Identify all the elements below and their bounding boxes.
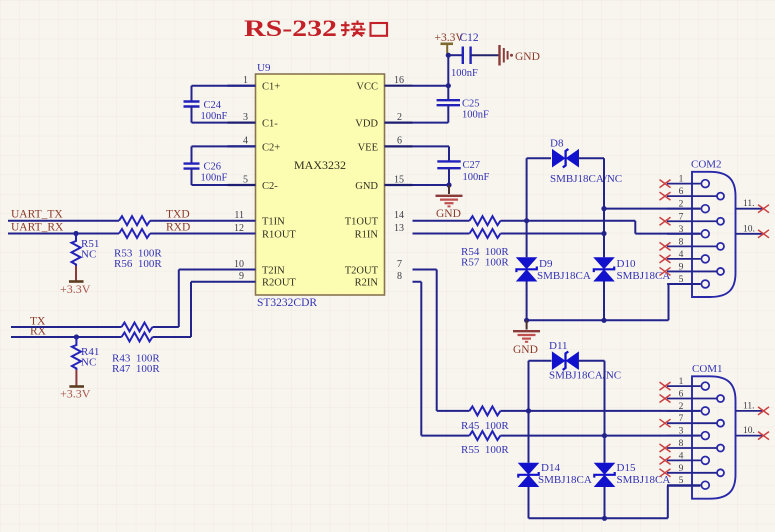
- D8 center bar: [563, 149, 569, 167]
- IC U9 MAX3232: [228, 62, 413, 309]
- COM2 right circles pins 6-9: [717, 193, 724, 275]
- COM2 pin 11 stub: [736, 208, 764, 210]
- svg-text:RXD: RXD: [166, 222, 190, 234]
- svg-text:D11: D11: [549, 340, 568, 352]
- junction node D9 T1OUT: [524, 218, 529, 223]
- svg-text:R57 100R: R57 100R: [461, 257, 509, 269]
- ground symbol stub rail: [526, 320, 528, 329]
- U9 body: [256, 74, 385, 295]
- svg-text:D15: D15: [617, 462, 636, 474]
- COM1 pin 10 stub: [736, 435, 764, 437]
- svg-text:6: 6: [679, 390, 684, 400]
- svg-text:8: 8: [679, 439, 684, 449]
- svg-text:1: 1: [679, 377, 684, 387]
- wire +3.3V down to C25: [447, 55, 449, 100]
- wire pin4 to C26: [192, 146, 256, 163]
- svg-text:SMBJ18CA: SMBJ18CA: [538, 474, 592, 486]
- svg-text:9: 9: [679, 262, 684, 272]
- svg-text:C2+: C2+: [262, 142, 280, 153]
- COM1 connector: [660, 363, 770, 499]
- wire R45 to COM1 pin2: [500, 410, 700, 412]
- svg-text:UART_RX: UART_RX: [11, 222, 64, 234]
- diode D8 TVS bowtie: [552, 149, 579, 168]
- svg-text:COM2: COM2: [691, 159, 722, 171]
- COM1 pin 9 stub: [667, 472, 717, 474]
- svg-text:6: 6: [397, 136, 402, 147]
- svg-text:D9: D9: [539, 258, 553, 270]
- svg-text:10: 10: [234, 259, 244, 270]
- wire +3.3V to C12: [448, 54, 463, 56]
- svg-text:5: 5: [679, 476, 684, 486]
- junction node D10 top: [601, 206, 606, 211]
- COM1 pin 9 noerc X: [660, 469, 671, 477]
- capacitor C27 plates: [437, 161, 460, 168]
- COM1 left circles pins 1-5: [701, 382, 709, 489]
- junction node C12: [446, 53, 451, 58]
- wire vertical D8 to D9: [526, 158, 528, 257]
- svg-text:7: 7: [397, 259, 402, 270]
- wire R1IN pin13: [413, 233, 470, 235]
- COM2 pin 7 noerc X: [660, 217, 671, 225]
- svg-text:100nF: 100nF: [201, 111, 228, 122]
- svg-text:C25: C25: [462, 99, 480, 110]
- wire D10 to gnd rail: [603, 282, 605, 321]
- svg-text:SMBJ18CA: SMBJ18CA: [537, 270, 591, 282]
- wire VEE pin6 to C27: [413, 146, 450, 161]
- wire R53 to T1IN pin11: [150, 220, 256, 222]
- capacitor C24: [184, 86, 256, 123]
- power +3.3V stub top: [447, 44, 448, 55]
- wire VCC pin16: [413, 85, 449, 87]
- power GND dot: [510, 54, 513, 57]
- svg-text:15: 15: [394, 174, 404, 185]
- COM1 shell: [692, 376, 736, 498]
- COM2 pin 11 noerc X: [758, 205, 769, 213]
- wire C26 to pin5: [192, 169, 228, 185]
- wire RX to R47: [11, 336, 122, 338]
- wire UART_TX to T1IN: [8, 220, 119, 222]
- COM1 pin 5 stub: [667, 484, 701, 486]
- svg-text:6: 6: [679, 187, 684, 197]
- COM2 pin 4 stub: [667, 258, 701, 260]
- svg-text:NC: NC: [81, 249, 96, 261]
- svg-text:3: 3: [679, 427, 684, 437]
- svg-text:7: 7: [679, 414, 684, 424]
- COM2 pin 10 stub: [736, 233, 764, 235]
- wire D8 right lead: [578, 157, 604, 159]
- svg-text:R1OUT: R1OUT: [262, 230, 296, 241]
- wire C12 to GND: [471, 54, 500, 56]
- junction node rail D9: [524, 318, 529, 323]
- svg-text:100nF: 100nF: [463, 172, 490, 183]
- ground symbol stub: [448, 185, 450, 194]
- junction node rail D10: [601, 318, 606, 323]
- wire D11 left lead: [529, 360, 552, 362]
- COM2 pin 1 noerc X: [660, 180, 671, 188]
- COM1 pin 8 noerc X: [660, 444, 671, 452]
- svg-text:D8: D8: [550, 138, 564, 150]
- svg-text:D14: D14: [541, 462, 560, 474]
- svg-text:R2OUT: R2OUT: [262, 278, 296, 289]
- svg-text:SMBJ18CA: SMBJ18CA: [617, 474, 671, 486]
- wire GND pin15: [413, 184, 450, 186]
- junction node D14 line1: [526, 408, 531, 413]
- diode D10 TVS bowtie vertical: [593, 257, 615, 281]
- resistor R41 vertical: [72, 337, 81, 370]
- capacitor C26: [184, 146, 256, 185]
- resistor R53: [119, 216, 150, 225]
- COM1 pin 7 stub: [667, 422, 717, 424]
- pin names left: [262, 82, 296, 289]
- svg-text:12: 12: [234, 223, 244, 234]
- svg-text:VCC: VCC: [356, 82, 378, 93]
- resistor R51 vertical: [72, 234, 81, 267]
- D11 center bar: [563, 352, 569, 370]
- top power section: [413, 32, 540, 123]
- COM2 pin 3 stub: [667, 233, 701, 235]
- svg-text:GND: GND: [513, 344, 538, 356]
- junction node VCC: [446, 83, 451, 88]
- svg-text:3: 3: [243, 112, 248, 123]
- svg-text:NC: NC: [81, 357, 96, 369]
- power GND symbol sideways: [500, 45, 508, 66]
- svg-text:1: 1: [243, 75, 248, 86]
- svg-text:4: 4: [679, 250, 684, 260]
- resistor R45: [469, 406, 500, 415]
- resistor R47: [122, 333, 153, 342]
- wire D8 left lead: [527, 157, 551, 159]
- svg-text:VEE: VEE: [358, 142, 378, 153]
- pin numbers left: [234, 75, 248, 282]
- svg-text:5: 5: [679, 275, 684, 285]
- svg-text:T2IN: T2IN: [262, 266, 285, 277]
- svg-text:7: 7: [679, 212, 684, 222]
- COM2 pin 8 noerc X: [660, 242, 671, 250]
- COM2 pin 5 stub: [667, 283, 701, 285]
- COM1 pin 11 noerc X: [758, 407, 769, 415]
- junction node GND: [446, 182, 451, 187]
- COM2 pin 9 stub: [667, 270, 717, 272]
- COM2 pin 6 noerc X: [660, 192, 671, 200]
- svg-text:MAX3232: MAX3232: [294, 158, 346, 172]
- COM2 pin 1 stub: [667, 183, 701, 185]
- wire R47 to R2OUT pin9: [153, 282, 256, 337]
- svg-text:3: 3: [679, 225, 684, 235]
- svg-text:GND: GND: [355, 181, 378, 192]
- COM1 pin 1 stub: [667, 385, 701, 387]
- svg-text:9: 9: [239, 271, 244, 282]
- wire pin1 to C24: [192, 86, 256, 101]
- svg-text:10.: 10.: [743, 224, 755, 234]
- power +3.3V bar R51: [69, 280, 84, 283]
- diode D9 TVS bowtie vertical: [516, 257, 538, 281]
- wire R57 to D10 node: [501, 233, 605, 235]
- resistor R56: [119, 229, 150, 238]
- COM2 pin 6 stub: [667, 195, 717, 197]
- svg-text:GND: GND: [436, 208, 461, 220]
- svg-text:C12: C12: [460, 32, 479, 44]
- COM1 right circles pins 6-9: [717, 395, 724, 476]
- wire gnd rail COM2: [527, 284, 701, 320]
- wire T2OUT pin7 to R45: [413, 270, 470, 411]
- wire R56 to R1OUT pin12: [150, 233, 256, 235]
- wire T1OUT pin14: [413, 220, 470, 222]
- svg-text:UART_TX: UART_TX: [11, 209, 63, 221]
- COM1 pin 8 stub: [667, 447, 717, 449]
- COM2 pin 10 noerc X: [758, 230, 769, 238]
- svg-text:T1IN: T1IN: [262, 217, 285, 228]
- svg-text:8: 8: [679, 237, 684, 247]
- C24 plates: [184, 102, 200, 107]
- wire vertical D11 to D14: [528, 361, 530, 463]
- COM1 pin 2 stub: [667, 410, 701, 412]
- diode D15 TVS bowtie vertical: [594, 463, 616, 487]
- svg-text:C26: C26: [204, 162, 222, 173]
- wire R55 to COM1 pin3: [500, 435, 700, 437]
- svg-text:T1OUT: T1OUT: [345, 217, 379, 228]
- wire vertical D8 to D10: [603, 158, 605, 257]
- COM2 pin 7 stub: [667, 220, 717, 222]
- ground symbol bars: [436, 196, 463, 207]
- ground symbol bars rail: [513, 331, 540, 342]
- pin names right: [345, 82, 379, 289]
- D9 center bar: [516, 267, 536, 273]
- capacitor C25 plates: [437, 100, 460, 105]
- wire COM2 pin2 from D10 node: [604, 208, 700, 210]
- power +3.3V bar R41: [69, 385, 84, 388]
- COM1 pin 1 noerc X: [660, 382, 671, 390]
- svg-text:+3.3V: +3.3V: [60, 387, 91, 401]
- D14 center bar: [518, 472, 538, 478]
- D10 center bar: [594, 267, 614, 273]
- wire vertical D11 to D15: [604, 361, 606, 463]
- wire TX to R43: [11, 326, 122, 328]
- svg-text:9: 9: [679, 464, 684, 474]
- wire UART_RX to R1OUT: [8, 233, 119, 235]
- svg-text:C1+: C1+: [262, 82, 280, 93]
- svg-text:SMBJ18CA/NC: SMBJ18CA/NC: [550, 173, 622, 185]
- svg-text:C24: C24: [204, 100, 222, 111]
- svg-text:14: 14: [394, 210, 404, 221]
- wire C24 to pin3: [192, 107, 228, 123]
- COM1 pin 10 noerc X: [758, 432, 769, 440]
- svg-text:TXD: TXD: [166, 209, 190, 221]
- svg-text:U9: U9: [257, 62, 271, 74]
- svg-text:T2OUT: T2OUT: [345, 266, 379, 277]
- pin stubs left: [228, 86, 256, 185]
- COM1 pin 7 noerc X: [660, 419, 671, 427]
- svg-text:R2IN: R2IN: [355, 278, 379, 289]
- svg-text:RS-232: RS-232: [244, 16, 337, 41]
- VEE C27 section: [413, 146, 490, 220]
- TX RX lower section: [11, 270, 256, 401]
- D15 center bar: [594, 472, 614, 478]
- power +3.3V stub R41: [75, 370, 77, 386]
- COM1 pin 6 noerc X: [660, 395, 671, 403]
- title RS-232接口: [244, 16, 387, 41]
- svg-text:4: 4: [243, 136, 248, 147]
- svg-text:D10: D10: [617, 258, 636, 270]
- svg-text:VDD: VDD: [355, 119, 378, 130]
- svg-text:R45 100R: R45 100R: [461, 420, 509, 432]
- svg-text:100nF: 100nF: [451, 68, 478, 79]
- wire D14 to rail2: [528, 487, 530, 518]
- diode D11 TVS bowtie: [552, 351, 579, 370]
- svg-text:SMBJ18CA/NC: SMBJ18CA/NC: [549, 370, 621, 382]
- power +3.3V stub R51: [75, 266, 77, 281]
- COM2 connector: [660, 159, 770, 298]
- resistor R54: [470, 216, 501, 225]
- wire C25 to VDD pin2: [413, 105, 449, 122]
- UART wires and input resistors: [8, 209, 256, 297]
- svg-text:R47 100R: R47 100R: [112, 363, 160, 375]
- junction node D15 line2: [602, 433, 607, 438]
- junction node R41: [74, 334, 79, 339]
- pin numbers right: [394, 75, 404, 282]
- wire D11 right lead: [579, 360, 605, 362]
- svg-text:16: 16: [394, 75, 404, 86]
- wire C27 to GND junction: [448, 168, 450, 185]
- svg-text:R1IN: R1IN: [355, 230, 379, 241]
- svg-text:10.: 10.: [743, 426, 755, 436]
- pin stubs right: [385, 86, 413, 185]
- svg-text:C2-: C2-: [262, 181, 278, 192]
- COM2 pin 8 stub: [667, 245, 717, 247]
- svg-text:GND: GND: [515, 51, 540, 63]
- wire R54 to COM2 pin3 with step: [501, 221, 701, 234]
- COM1 pin 6 stub: [667, 398, 717, 400]
- svg-text:1: 1: [679, 175, 684, 185]
- power +3.3V bar top: [441, 42, 454, 45]
- COM1 pin 4 noerc X: [660, 456, 671, 464]
- T2 output section: [413, 270, 701, 521]
- svg-text:SMBJ18CA: SMBJ18CA: [617, 270, 671, 282]
- svg-text:ST3232CDR: ST3232CDR: [257, 297, 317, 309]
- svg-text:13: 13: [394, 223, 404, 234]
- svg-text:11: 11: [234, 210, 244, 221]
- svg-text:100nF: 100nF: [462, 110, 489, 121]
- COM2 pin 4 noerc X: [660, 255, 671, 263]
- svg-text:C27: C27: [463, 160, 481, 171]
- svg-text:R55 100R: R55 100R: [461, 444, 509, 456]
- svg-text:5: 5: [243, 174, 248, 185]
- svg-text:11.: 11.: [743, 199, 755, 209]
- svg-text:C1-: C1-: [262, 119, 278, 130]
- svg-text:2: 2: [679, 200, 684, 210]
- wire D15 to rail2: [604, 487, 606, 518]
- svg-text:COM1: COM1: [692, 363, 723, 375]
- wire rail2 to COM1 pin5: [529, 486, 701, 519]
- COM2 pin 2 stub: [667, 208, 701, 210]
- resistor R43: [122, 323, 153, 332]
- COM1 pin 4 stub: [667, 459, 701, 461]
- svg-text:2: 2: [679, 402, 684, 412]
- COM1 pin 3 stub: [667, 435, 701, 437]
- COM2 left circles pins 1-5: [701, 180, 709, 288]
- resistor R57: [470, 229, 501, 238]
- resistor R55: [469, 431, 500, 440]
- svg-text:100nF: 100nF: [201, 173, 228, 184]
- svg-text:2: 2: [397, 112, 402, 123]
- svg-text:8: 8: [397, 271, 402, 282]
- wire D9 to gnd rail: [526, 282, 528, 321]
- wire R43 to T2IN pin10: [153, 270, 256, 328]
- C26 plates: [184, 164, 200, 169]
- svg-text:11.: 11.: [743, 401, 755, 411]
- diode D14 TVS bowtie vertical: [518, 463, 540, 487]
- wire R2IN pin8 to R55: [413, 282, 470, 436]
- capacitor C12 plates: [463, 47, 471, 65]
- junction node R51: [73, 231, 78, 236]
- junction node D10 R1IN: [601, 231, 606, 236]
- COM2 shell: [692, 172, 736, 297]
- svg-text:4: 4: [679, 451, 684, 461]
- junction node rail2 D15: [602, 516, 607, 521]
- output section T1: [413, 138, 701, 357]
- COM1 pin 11 stub: [736, 410, 764, 412]
- COM2 pin 9 noerc X: [660, 267, 671, 275]
- svg-text:R56 100R: R56 100R: [114, 258, 162, 270]
- svg-text:+3.3V: +3.3V: [60, 282, 91, 296]
